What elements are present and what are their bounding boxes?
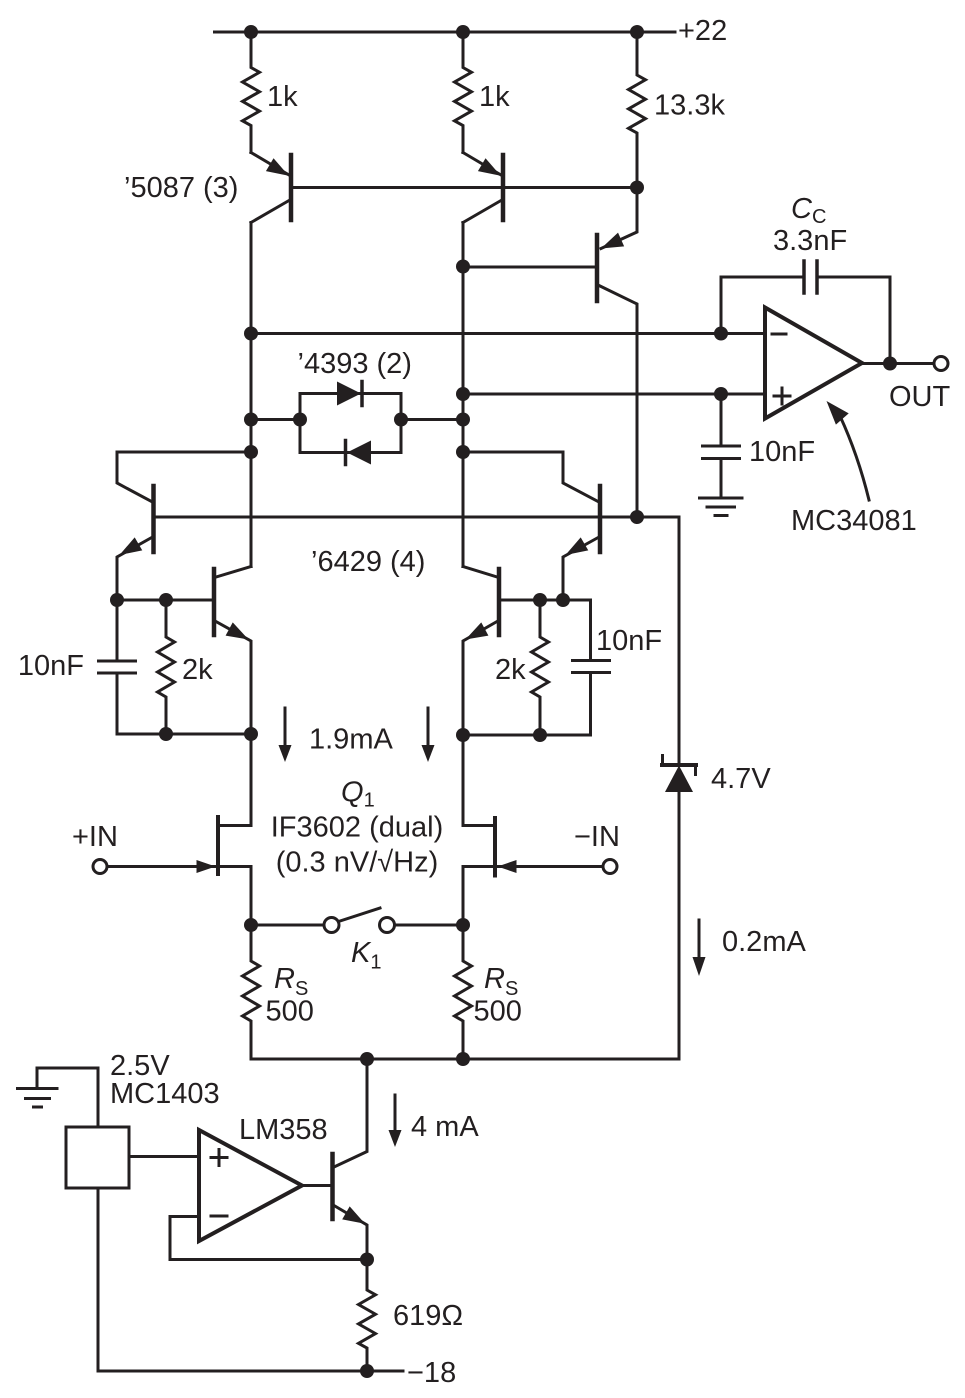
node upper-right collector tap: [456, 445, 470, 459]
current arrow 1.9mA right: [427, 708, 430, 746]
svg-text:+22: +22: [678, 15, 727, 47]
wire upper-right 6429 collector path: [463, 452, 598, 502]
resistor 2k left: [158, 600, 175, 734]
wire switch right: [395, 924, 464, 927]
transistor Q2c 5087 right - collector wire: [599, 286, 637, 518]
node lower-left base / 2k top: [159, 593, 173, 607]
svg-text:+IN: +IN: [72, 821, 118, 853]
node diode right lead at box: [394, 413, 408, 427]
svg-text:1k: 1k: [479, 81, 510, 113]
op-amp U2 LM358 triangle: [199, 1130, 302, 1241]
wire to op-amp inverting input: [251, 332, 765, 335]
resistor Rs right: [455, 925, 472, 1059]
transistor Q1a JFET left - gate bar: [216, 817, 220, 874]
node 13.3k bottom / base node: [630, 181, 644, 195]
op-amp U1 MC34081 triangle: [765, 308, 862, 419]
transistor Q2a 5087 left - base bar: [289, 155, 294, 220]
node upper-left collector tap: [244, 445, 258, 459]
transistor Q3b 6429 upper-right - base bar: [598, 486, 603, 552]
switch K1 right contact: [380, 918, 395, 933]
svg-text:(0.3 nV/√Hz): (0.3 nV/√Hz): [276, 847, 439, 879]
node junction top rail right: [630, 25, 644, 39]
node lower-right base / upper emitter: [556, 593, 570, 607]
svg-text:500: 500: [474, 996, 522, 1028]
node diode left lead at bus: [244, 413, 258, 427]
transistor Q1b JFET right - gate wire: [498, 865, 603, 868]
node left cell rail at bus: [244, 727, 258, 741]
transistor Q1b JFET right - source wire: [463, 867, 493, 926]
node 2k bottom right: [533, 728, 547, 742]
ground at MC1403: [18, 1087, 58, 1090]
node tail rail at right Rs: [456, 1052, 470, 1066]
transistor Q1b JFET right - gate bar: [493, 818, 497, 876]
node junction top rail middle: [456, 25, 470, 39]
zener diode 4.7V: [665, 766, 693, 793]
capacitor Cc feedback - right wire: [817, 277, 890, 364]
svg-text:2k: 2k: [182, 654, 213, 686]
transistor Q5 - collector wire: [334, 1059, 367, 1167]
current arrow 4mA: [394, 1095, 397, 1131]
capacitor Cc 3.3nF - plates: [802, 261, 806, 293]
terminal -IN: [603, 860, 617, 874]
resistor 1k middle: [455, 32, 472, 153]
node right cell rail at bus: [456, 728, 470, 742]
wire tail current rail: [251, 1058, 679, 1061]
wire MC1403 output to LM358: [129, 1155, 199, 1158]
transistor Q4b 6429 lower-right - base wire: [501, 600, 591, 661]
transistor Q1b JFET right - gate arrow: [498, 860, 517, 873]
wire left cell bottom rail: [117, 733, 251, 736]
transistor Q5 - emitter wire: [334, 1206, 367, 1260]
wire LM358 output to Q5 base: [302, 1184, 330, 1187]
wire +22 supply rail: [215, 31, 676, 34]
node left collector to -in: [244, 327, 258, 341]
node 619 at -18 rail: [360, 1364, 374, 1378]
wire diode box right side: [400, 394, 403, 453]
switch K1 lever: [340, 908, 380, 921]
svg-text:2k: 2k: [495, 654, 526, 686]
ground at +in capacitor: [700, 497, 743, 500]
wire middle collector bus: [462, 223, 465, 567]
svg-text:4.7V: 4.7V: [711, 763, 771, 795]
capacitor 10nF right - plates: [573, 659, 610, 662]
node lower-right base / 2k top: [533, 593, 547, 607]
node diode left lead at box: [293, 413, 307, 427]
wire diode top branch: [300, 392, 401, 395]
transistor Q3a 6429 upper-left - emitter wire: [117, 537, 154, 601]
current arrow 1.9mA left: [284, 708, 287, 746]
capacitor 10nF at +in - top lead: [720, 394, 723, 446]
transistor Q5 - emitter arrow: [342, 1206, 365, 1223]
transistor Q2a 5087 left - emitter wire: [251, 153, 289, 176]
svg-text:1k: 1k: [267, 81, 298, 113]
pointer arrow to MC34081: [840, 416, 869, 500]
node 2k bottom left: [159, 727, 173, 741]
transistor Q2c 5087 right - base bar: [595, 235, 600, 301]
node Q2c base tap on middle collector line: [456, 260, 470, 274]
wire cascode base line: [154, 516, 680, 519]
wire diode box left side: [299, 394, 302, 453]
svg-text:’6429 (4): ’6429 (4): [311, 546, 425, 578]
node diode right lead at bus: [456, 413, 470, 427]
resistor 13.3k: [629, 32, 646, 188]
wire right cell bottom rail: [463, 734, 591, 737]
node feedback tap on -in wire: [714, 327, 728, 341]
transistor Q2b 5087 middle - emitter arrow: [478, 158, 501, 176]
terminal +IN: [93, 860, 107, 874]
svg-text:’4393 (2): ’4393 (2): [298, 348, 412, 380]
capacitor Cc feedback - left wire: [721, 277, 804, 334]
svg-text:13.3k: 13.3k: [654, 90, 725, 122]
wire MC1403 bottom to -18 rail: [98, 1189, 403, 1372]
transistor Q3b 6429 upper-right - emitter wire: [563, 537, 600, 601]
transistor Q2c 5087 right - emitter arrow: [601, 233, 624, 249]
svg-text:1.9mA: 1.9mA: [309, 724, 393, 756]
resistor Rs left: [243, 925, 260, 1059]
transistor Q5 - base bar: [330, 1154, 335, 1219]
transistor Q2b 5087 middle - base bar: [501, 155, 506, 220]
op-amp U1 minus sign: [772, 333, 786, 336]
svg-text:−18: −18: [407, 1357, 456, 1389]
current arrow 0.2mA: [698, 920, 701, 958]
transistor Q2a 5087 left - collector wire: [251, 201, 289, 223]
resistor 619: [359, 1260, 376, 1372]
transistor Q2c 5087 right - base wire: [463, 266, 595, 269]
transistor Q4b 6429 lower-right - base bar: [497, 569, 502, 635]
wire zener branch upper: [678, 517, 681, 765]
transistor Q4a 6429 lower-left - emitter arrow: [226, 622, 249, 639]
node middle bus to +in: [456, 387, 470, 401]
transistor Q4a 6429 lower-left - collector wire: [216, 567, 251, 578]
wire upper-left 6429 collector path: [117, 452, 251, 502]
resistor 2k right: [532, 600, 549, 735]
node left source: [244, 918, 258, 932]
node junction top rail left: [244, 25, 258, 39]
svg-text:619Ω: 619Ω: [393, 1300, 463, 1332]
svg-text:LM358: LM358: [239, 1114, 328, 1146]
transistor Q1a JFET left - gate wire: [107, 865, 215, 868]
capacitor 10nF left - plates: [99, 660, 136, 663]
op-amp U1 plus sign: [774, 395, 790, 398]
svg-text:3.3nF: 3.3nF: [773, 225, 847, 257]
wire to op-amp non-inverting input: [463, 393, 765, 396]
wire diode pair right lead: [401, 418, 463, 421]
transistor Q2b 5087 middle - emitter wire: [463, 153, 501, 176]
op-amp U2 minus sign: [211, 1215, 227, 1218]
transistor Q3a 6429 upper-left - base bar: [151, 486, 156, 552]
svg-text:MC34081: MC34081: [791, 505, 917, 537]
wire shared base line of 5087 pair to 13.3k node: [293, 186, 637, 189]
svg-text:500: 500: [266, 996, 314, 1028]
transistor Q1a JFET left - gate arrow: [197, 860, 216, 873]
wire LM358 feedback: [170, 1217, 367, 1260]
node Q2c collector joins cascode bases: [630, 510, 644, 524]
transistor Q1a JFET left - source wire: [220, 867, 251, 926]
capacitor 10nF right - bottom lead: [589, 673, 592, 736]
capacitor 10nF left - bottom lead: [116, 673, 119, 734]
transistor Q4a 6429 lower-left - base bar: [212, 569, 217, 635]
svg-text:4 mA: 4 mA: [411, 1111, 479, 1143]
wire left collector bus: [250, 223, 253, 567]
node output feedback junction: [883, 357, 897, 371]
node lower-left base / upper emitter: [110, 593, 124, 607]
node tail rail at 4mA branch: [360, 1052, 374, 1066]
op-amp U2 plus sign: [211, 1156, 227, 1159]
node right source: [456, 918, 470, 932]
diode D2 4393 (points left): [347, 441, 371, 465]
wire zener branch lower: [678, 792, 681, 1059]
capacitor 10nF at +in - plates: [703, 445, 740, 448]
wire diode bottom branch: [300, 451, 401, 454]
terminal OUT: [934, 357, 948, 371]
svg-text:IF3602 (dual): IF3602 (dual): [271, 812, 444, 844]
resistor 1k left: [243, 32, 260, 153]
svg-text:OUT: OUT: [889, 381, 951, 413]
svg-text:MC1403: MC1403: [110, 1078, 220, 1110]
switch K1 left contact: [324, 918, 339, 933]
transistor Q3a 6429 upper-left - emitter arrow: [120, 537, 143, 555]
transistor Q2b 5087 middle - collector wire: [463, 201, 501, 223]
svg-text:0.2mA: 0.2mA: [722, 926, 806, 958]
transistor Q4b 6429 lower-right - emitter arrow: [466, 622, 489, 639]
voltage reference MC1403 box: [66, 1127, 129, 1188]
svg-text:−IN: −IN: [574, 821, 620, 853]
wire switch left: [251, 924, 324, 927]
svg-text:10nF: 10nF: [596, 625, 662, 657]
transistor Q4b 6429 lower-right - collector wire: [463, 567, 497, 578]
capacitor 10nF at +in - bottom lead: [720, 459, 723, 499]
wire op-amp output: [862, 362, 934, 365]
transistor Q4b 6429 lower-right - emitter wire: [463, 622, 497, 826]
svg-text:10nF: 10nF: [18, 650, 84, 682]
transistor Q3b 6429 upper-right - emitter arrow: [566, 537, 589, 555]
transistor Q4a 6429 lower-left - base wire: [117, 599, 212, 602]
transistor Q4a 6429 lower-left - emitter wire: [216, 622, 251, 826]
svg-text:’5087 (3): ’5087 (3): [124, 172, 238, 204]
wire ground to MC1403 box: [37, 1068, 98, 1127]
svg-text:10nF: 10nF: [749, 436, 815, 468]
transistor Q2a 5087 left - emitter arrow: [266, 158, 289, 176]
wire diode pair left lead: [251, 418, 300, 421]
capacitor 10nF left - top lead: [116, 600, 119, 661]
diode D1 4393 (points right): [337, 382, 361, 406]
node 10nF tap on +in wire: [714, 387, 728, 401]
node feedback at emitter: [360, 1253, 374, 1267]
transistor Q2c 5087 right - emitter wire: [601, 188, 637, 249]
